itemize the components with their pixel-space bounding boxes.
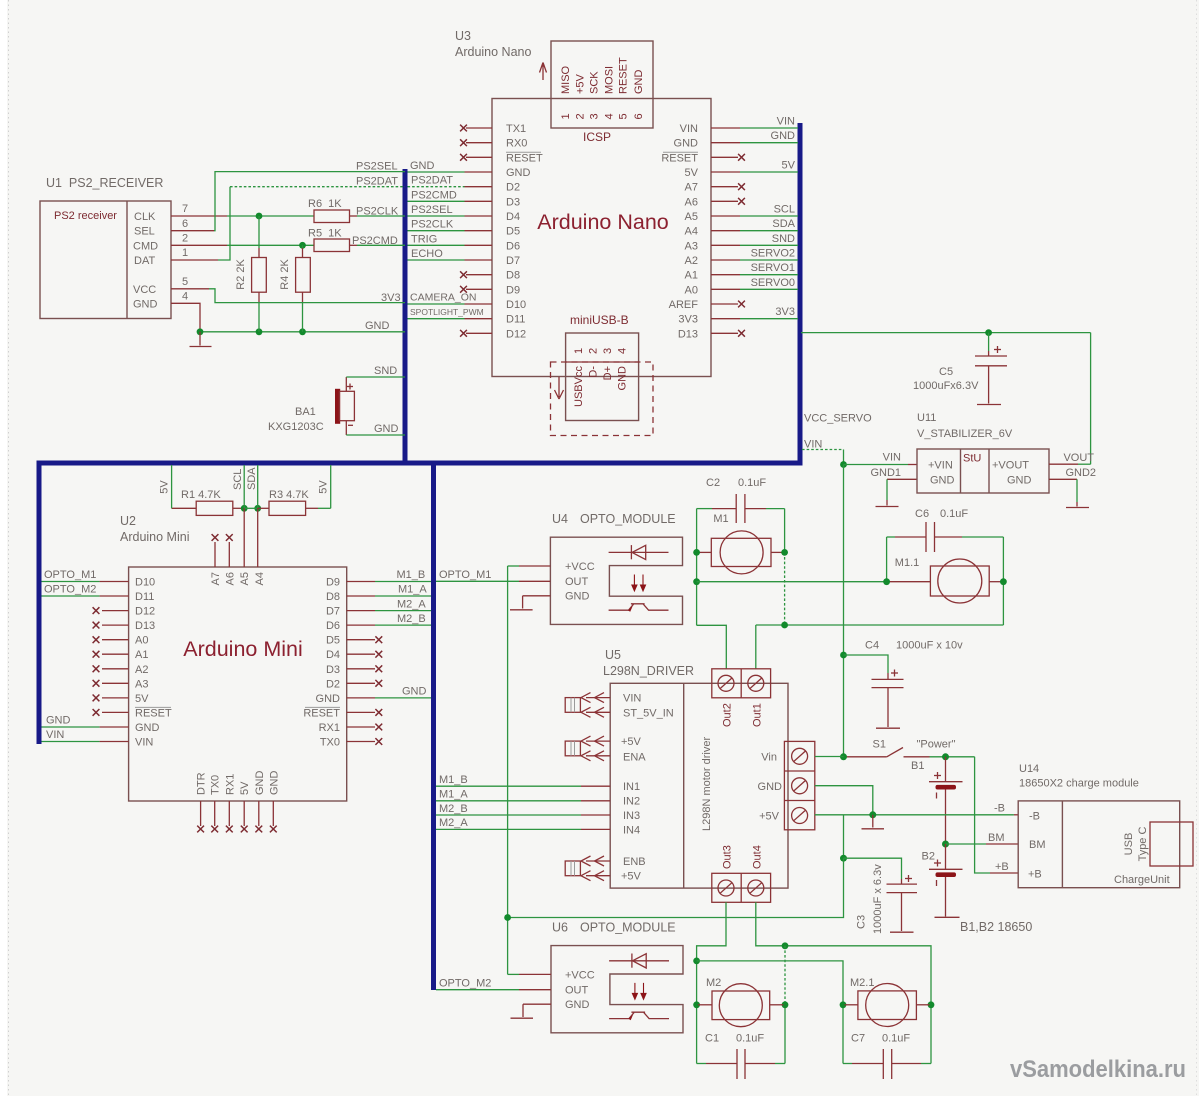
wire GND2 from stabilizer [1049, 478, 1077, 480]
svg-text:5V: 5V [159, 480, 171, 494]
net label VOUT [1063, 452, 1094, 464]
wire net SND to bus [346, 376, 405, 378]
wire 3V3 to bus C [711, 318, 798, 320]
watermark vSamodelkina.ru [1010, 1056, 1186, 1083]
svg-text:R4 2K: R4 2K [279, 259, 291, 290]
svg-text:7: 7 [182, 203, 188, 215]
pin A1 no-connect [93, 651, 129, 658]
svg-text:Type C: Type C [1137, 827, 1149, 862]
svg-text:PS2CLK: PS2CLK [356, 206, 399, 218]
voltage stabilizer U11 StU [917, 449, 1049, 493]
svg-text:5V: 5V [135, 693, 149, 705]
wire ECHO to D7 [408, 259, 493, 261]
svg-text:SND: SND [772, 233, 795, 245]
net label PS2CLK right [411, 219, 454, 231]
svg-text:D10: D10 [506, 299, 526, 311]
svg-text:SERVO2: SERVO2 [751, 248, 795, 260]
svg-text:PS2CMD: PS2CMD [352, 235, 398, 247]
wire VIN dashed from bus [802, 450, 844, 465]
svg-text:OPTO_M1: OPTO_M1 [439, 569, 491, 581]
svg-text:PS2DAT: PS2DAT [411, 175, 453, 187]
pin D13 no-connect [711, 330, 745, 337]
wire GND from Mini right to bus E [347, 697, 431, 699]
svg-text:OPTO_M1: OPTO_M1 [44, 569, 96, 581]
Nano right pin names [661, 123, 698, 340]
svg-text:PS2 receiver: PS2 receiver [54, 210, 117, 222]
svg-text:GND: GND [374, 423, 399, 435]
U2 designator [120, 514, 189, 544]
svg-text:R3 4.7K: R3 4.7K [269, 489, 309, 501]
wire M1_A from D8 to bus E [347, 595, 431, 597]
battery B2 18650 [922, 844, 963, 917]
svg-text:R2 2K: R2 2K [235, 259, 247, 290]
capacitor C4 1000uF polarized [844, 655, 904, 688]
wire M1.1 left vertical [886, 537, 888, 582]
ICSP header connector [551, 41, 653, 128]
ground symbol below -B line [862, 815, 885, 829]
Mini top pin names rotated [210, 572, 266, 585]
pin AREF no-connect [711, 301, 745, 308]
pin GND2 bottom no-connect [270, 801, 277, 832]
junction +5V rail at U4/U6 VCC rail [504, 914, 511, 921]
wire Out2 drop [697, 625, 727, 669]
U3 designator [455, 29, 531, 59]
net label PS2DAT [356, 176, 398, 188]
net label OPTO_M1 left [44, 569, 96, 581]
label B1,B2 18650 [960, 920, 1032, 934]
connector symbol for +5V/ENA [565, 736, 610, 761]
svg-text:M2.1: M2.1 [850, 977, 874, 989]
wire 3V3 feed from bus to VOUT loop [801, 333, 1091, 465]
pin RX1 bottom no-connect [226, 801, 233, 832]
resistor R2 2K [235, 258, 266, 293]
svg-text:D10: D10 [135, 577, 155, 589]
net label SERVO2 [751, 248, 795, 260]
screw terminal Out3/Out4 [712, 873, 771, 902]
svg-text:5V: 5V [685, 167, 699, 179]
pin number 1 [182, 247, 188, 259]
junction Out1/M1 right [781, 622, 788, 629]
svg-text:GND: GND [133, 299, 158, 311]
terminal label Out1 [751, 703, 763, 727]
svg-text:D-: D- [588, 366, 600, 378]
wire OPTO_M1 from bus E to U4 OUT [436, 580, 550, 582]
wire Out4 to M2.1 right [756, 902, 931, 1063]
junction VIN node [840, 461, 847, 468]
svg-text:BM: BM [988, 832, 1005, 844]
motor M2.1 [845, 977, 930, 1027]
svg-text:D6: D6 [506, 240, 520, 252]
svg-text:M1_A: M1_A [398, 584, 427, 596]
svg-text:ICSP: ICSP [583, 130, 611, 144]
motor M1.1 [888, 557, 1002, 603]
svg-text:BM: BM [1029, 839, 1046, 851]
svg-text:GND: GND [46, 715, 71, 727]
svg-text:SDA: SDA [772, 218, 795, 230]
net label 5V rotated left [159, 480, 171, 494]
wire M2 right drop dashed [784, 946, 786, 1064]
pin TX0 bottom no-connect [211, 801, 218, 832]
svg-text:VIN: VIN [623, 693, 641, 705]
svg-text:GND: GND [268, 771, 280, 796]
svg-text:D9: D9 [326, 577, 340, 589]
svg-text:A0: A0 [135, 635, 148, 647]
pin number 2 [182, 233, 188, 245]
svg-text:U5: U5 [605, 648, 621, 662]
svg-text:B2: B2 [922, 851, 935, 863]
svg-text:vSamodelkina.ru: vSamodelkina.ru [1010, 1056, 1186, 1083]
svg-text:S1: S1 [873, 739, 886, 751]
svg-text:R5 1K: R5 1K [308, 228, 342, 240]
net label GND2 [1065, 467, 1096, 479]
svg-text:M2: M2 [706, 977, 721, 989]
svg-text:GND: GND [771, 130, 796, 142]
svg-text:Arduino Mini: Arduino Mini [183, 637, 303, 661]
svg-text:VIN: VIN [680, 123, 698, 135]
L298N driver U5 body [610, 683, 788, 888]
wire OPTO_M2 to D11 [42, 595, 129, 597]
GND1 ground symbol [876, 479, 899, 506]
svg-text:SERVO0: SERVO0 [751, 277, 795, 289]
svg-text:TRIG: TRIG [411, 233, 437, 245]
svg-text:+B: +B [1028, 869, 1042, 881]
wire BA1 GND to bus [346, 434, 405, 436]
pin D5 no-connect [347, 636, 383, 643]
C3 ground [890, 893, 914, 933]
svg-text:D8: D8 [506, 270, 520, 282]
wire net GND horizontal to bus [200, 331, 405, 333]
svg-text:GND: GND [254, 771, 266, 796]
C5 ground lead and symbol [977, 366, 1001, 405]
wire BA1 minus lead [345, 421, 347, 435]
wire TRIG to D6 [408, 244, 493, 246]
svg-text:ChargeUnit: ChargeUnit [1114, 874, 1170, 886]
USB Type C connector on U14 [1123, 822, 1193, 866]
pin A0 no-connect [93, 636, 129, 643]
svg-text:0.1uF: 0.1uF [736, 1033, 764, 1045]
capacitor C6 0.1uF label [915, 508, 968, 520]
capacitor C5 1000uFx6.3V [913, 333, 1007, 392]
svg-text:GND: GND [565, 591, 590, 603]
svg-text:D3: D3 [326, 664, 340, 676]
svg-text:RESET: RESET [661, 152, 698, 164]
screw terminal Out2/Out1 [712, 669, 771, 698]
svg-text:U4: U4 [552, 512, 568, 526]
Arduino Mini U2 body [129, 567, 347, 801]
svg-text:C3: C3 [856, 915, 868, 929]
svg-text:A7: A7 [210, 572, 222, 585]
wire GND to bus C [711, 142, 798, 144]
svg-text:Out3: Out3 [722, 845, 734, 869]
pin TX1 no-connect stub [460, 125, 492, 132]
svg-text:D5: D5 [506, 226, 520, 238]
U4 phototransistor [609, 604, 669, 612]
svg-text:PS2SEL: PS2SEL [356, 161, 398, 173]
net label VIN at StU [883, 452, 901, 464]
svg-text:GND1: GND1 [870, 467, 901, 479]
pin TX0 no-connect [347, 738, 383, 745]
resistor R1 4.7K [181, 489, 233, 515]
wire S1 right to B1 and +B riser [930, 756, 975, 758]
wire PS2DAT to D2 dashed [408, 186, 493, 188]
wire M2_A from bus E to IN4 [436, 828, 610, 830]
pin 5V bottom no-connect [241, 801, 248, 832]
Arduino Nano U3 body [492, 99, 711, 377]
svg-text:A5: A5 [685, 211, 698, 223]
svg-text:CLK: CLK [134, 211, 156, 223]
svg-text:IN2: IN2 [623, 796, 640, 808]
connector symbol for ENB/+5V [565, 856, 610, 881]
capacitor C1 [697, 1049, 785, 1079]
net label M1_A [398, 584, 427, 596]
pin RESET left no-connect [93, 709, 129, 716]
svg-text:GND: GND [402, 685, 427, 697]
wire M1 left to M1.1 left [697, 581, 887, 583]
wire between SCL and SDA nodes [244, 507, 258, 509]
U4 designator [552, 512, 676, 526]
svg-text:Out4: Out4 [751, 845, 763, 869]
net label OPTO_M1 at U4 [439, 569, 491, 581]
terminal label +5V [759, 811, 780, 823]
svg-text:D11: D11 [506, 314, 525, 326]
pin D8 no-connect stub [460, 271, 492, 278]
svg-text:C2: C2 [706, 477, 720, 489]
svg-text:U1 PS2_RECEIVER: U1 PS2_RECEIVER [46, 176, 163, 190]
junction M2 left [693, 1001, 700, 1008]
wire Out1 node to M1.1 right [756, 624, 1004, 626]
pin number 7 [182, 203, 188, 215]
svg-text:PS2DAT: PS2DAT [356, 176, 398, 188]
svg-text:A3: A3 [685, 240, 698, 252]
miniUSB-B label [570, 313, 629, 327]
net label GND mini right [402, 685, 427, 697]
net label GND right bus C [771, 130, 796, 142]
junction M1.1 right [1000, 578, 1007, 585]
svg-text:SCK: SCK [589, 71, 601, 94]
svg-text:GND: GND [506, 167, 531, 179]
wire U4 +VCC pin [508, 565, 551, 567]
svg-text:M1: M1 [713, 513, 728, 525]
svg-text:GND: GND [565, 999, 590, 1011]
svg-text:D9: D9 [506, 284, 520, 296]
net label PS2CMD right [411, 189, 457, 201]
wire SERVO0 to bus C [711, 288, 798, 290]
junction M2 right [782, 1001, 789, 1008]
svg-text:RX0: RX0 [506, 138, 527, 150]
wire BA1 plus lead [345, 377, 347, 391]
resistor R3 4.7K [269, 489, 309, 515]
net label -B [994, 802, 1005, 814]
pin RESET right no-connect [347, 709, 383, 716]
wire PS2CMD to D3 [408, 200, 493, 202]
terminal label Out4 [751, 845, 763, 869]
svg-text:4: 4 [182, 291, 188, 303]
svg-text:C1: C1 [705, 1033, 719, 1045]
wire R1 left lead [172, 507, 197, 509]
svg-text:5V: 5V [318, 480, 330, 494]
wire net PS2DAT dashed to bus [230, 186, 405, 188]
pin A3 no-connect [93, 680, 129, 687]
svg-text:A0: A0 [685, 284, 698, 296]
pin RESET left no-connect stub [460, 154, 492, 161]
wire CLK pin stub [171, 215, 227, 217]
pin A2 no-connect [93, 665, 129, 672]
wire R5 to bus PS2CMD [350, 244, 406, 246]
svg-text:D4: D4 [506, 211, 520, 223]
pin D12 no-connect [93, 607, 129, 614]
svg-text:B1,B2 18650: B1,B2 18650 [960, 920, 1032, 934]
switch S1 Power [846, 739, 956, 757]
U6 slot arrows [632, 983, 646, 999]
junction SCL node [241, 505, 248, 512]
wire SND to bus C [711, 244, 798, 246]
net label M1_B at IN1 [439, 774, 468, 786]
miniUSB arrow [555, 377, 564, 399]
svg-text:Arduino Nano: Arduino Nano [537, 210, 669, 234]
svg-text:1: 1 [560, 113, 572, 119]
svg-text:GND: GND [758, 781, 783, 793]
terminal label Out2 [722, 703, 734, 727]
svg-text:RESET: RESET [135, 707, 172, 719]
motor M1 [698, 513, 783, 574]
wire A5 lead down to Mini [243, 508, 245, 567]
wire VIN to bus C [711, 127, 798, 129]
GND2 ground symbol [1066, 479, 1089, 507]
svg-text:3V3: 3V3 [381, 292, 401, 304]
svg-text:+VOUT: +VOUT [992, 460, 1029, 472]
pin number 5 [182, 276, 188, 288]
wire A4 lead down to Mini [257, 508, 259, 567]
wire M1_B from D9 to bus E [347, 581, 431, 583]
wire PS2CLK to D5 [408, 230, 493, 232]
net label SND [374, 365, 397, 377]
svg-text:SND: SND [374, 365, 397, 377]
svg-text:-B: -B [994, 802, 1005, 814]
svg-text:+5V: +5V [575, 73, 587, 94]
terminal label Out3 [722, 845, 734, 869]
PS2 receiver U1 body [40, 201, 171, 319]
svg-text:TX0: TX0 [320, 737, 340, 749]
U4 slot arrows [632, 575, 646, 591]
pin D2 no-connect [347, 680, 383, 687]
wire Vin terminal to S1 [815, 756, 844, 758]
svg-text:A4: A4 [685, 226, 698, 238]
pin RX0 no-connect stub [460, 139, 492, 146]
junction GND at R2 [256, 328, 263, 335]
svg-text:D5: D5 [326, 635, 340, 647]
wire R6 to bus PS2CLK [350, 215, 406, 217]
wire M1.1 right vertical [1002, 537, 1004, 625]
svg-text:0.1uF: 0.1uF [882, 1033, 910, 1045]
net label GND left of bus A [365, 320, 390, 332]
wire DAT pin stub [171, 259, 218, 261]
svg-text:2: 2 [182, 233, 188, 245]
wire GND pin stub and drop [171, 303, 200, 332]
junction M1 right [781, 549, 788, 556]
svg-text:R6 1K: R6 1K [308, 198, 342, 210]
junction at C4 [840, 652, 847, 659]
net label GND at BA1 [374, 423, 399, 435]
wire R1 right lead [233, 507, 244, 509]
net label M2_B at IN3 [439, 803, 468, 815]
svg-text:C7: C7 [851, 1033, 865, 1045]
wire CMD pin stub [171, 244, 227, 246]
U6 LED diode [609, 954, 669, 969]
wire SDA riser to bus B [257, 465, 259, 508]
miniUSB dashed enclosure [551, 362, 654, 436]
wire 5V to bus C [711, 171, 798, 173]
svg-text:Arduino Mini: Arduino Mini [120, 530, 189, 544]
wire -B / +5V line to charge module [815, 814, 1018, 816]
svg-text:A2: A2 [135, 664, 148, 676]
svg-text:M1_B: M1_B [397, 569, 426, 581]
motor M2 [698, 977, 784, 1027]
svg-text:OPTO_MODULE: OPTO_MODULE [580, 921, 676, 935]
resistor R6 1K [308, 198, 350, 223]
Mini left pin names [135, 577, 172, 749]
svg-text:PS2SEL: PS2SEL [411, 204, 453, 216]
svg-text:DTR: DTR [196, 772, 208, 795]
svg-text:ST_5V_IN: ST_5V_IN [623, 708, 674, 720]
svg-text:IN3: IN3 [623, 810, 640, 822]
svg-text:6: 6 [633, 113, 645, 119]
net label SPOTLIGHT_PWM [410, 307, 484, 317]
charge module U14 body [1018, 801, 1179, 888]
svg-text:1000uF x 10v: 1000uF x 10v [896, 640, 963, 652]
svg-text:1: 1 [182, 247, 188, 259]
wire M1_A from bus E to IN2 [436, 800, 610, 802]
svg-text:VIN: VIN [804, 439, 822, 451]
svg-text:D7: D7 [506, 255, 520, 267]
svg-text:-B: -B [1029, 811, 1040, 823]
net label VCC_SERVO [804, 413, 872, 425]
net label M2_B right of mini [397, 613, 426, 625]
wire SERVO2 to bus C [711, 259, 798, 261]
net label SDA [772, 218, 795, 230]
svg-text:DAT: DAT [134, 255, 155, 267]
svg-text:+5V: +5V [759, 811, 780, 823]
net label GND1 [870, 467, 901, 479]
net label 3V3 [381, 292, 401, 304]
svg-text:3: 3 [602, 348, 614, 354]
svg-text:R1 4.7K: R1 4.7K [181, 489, 221, 501]
svg-text:C6: C6 [915, 508, 929, 520]
Mini bottom pin names rotated [196, 771, 281, 796]
svg-text:ENA: ENA [623, 752, 646, 764]
svg-text:GND: GND [1007, 475, 1032, 487]
svg-text:GND: GND [316, 693, 341, 705]
svg-text:D+: D+ [602, 366, 614, 380]
svg-text:2: 2 [588, 348, 600, 354]
wire R4 top lead [302, 245, 304, 257]
wire VOUT from stabilizer [1049, 463, 1091, 465]
opto module U4 body [550, 537, 682, 624]
svg-text:4: 4 [604, 113, 616, 119]
U1 PS2_RECEIVER designator label [46, 176, 163, 190]
svg-text:4: 4 [617, 348, 629, 354]
svg-text:Out2: Out2 [722, 703, 734, 727]
screw terminal Vin/GND/+5V [784, 741, 814, 829]
bus frame C-B-D (right vertical, horizontal, left vertical) [39, 123, 800, 744]
battery B1 18650 [911, 757, 963, 844]
wire M2_B from D6 to bus E [347, 624, 431, 626]
junction BM node [942, 841, 949, 848]
svg-text:AREF: AREF [669, 299, 699, 311]
wire Out1 drop [755, 625, 757, 669]
svg-text:A7: A7 [685, 182, 698, 194]
svg-text:MISO: MISO [560, 65, 572, 94]
Nano left pin names [506, 123, 543, 340]
